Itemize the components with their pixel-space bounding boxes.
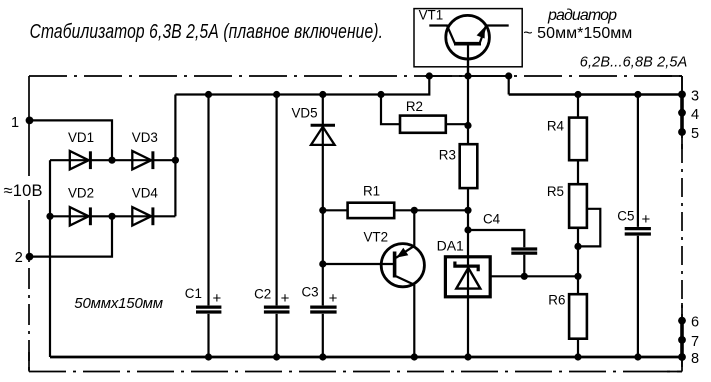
node: R5 wiper rejoin <box>574 243 581 250</box>
node: DA1 row / divider <box>574 273 581 280</box>
svg-text:R3: R3 <box>439 148 456 163</box>
wire: VT2 emitter lead down <box>413 285 415 357</box>
svg-text:1: 1 <box>11 115 19 131</box>
terminal 7 <box>678 336 686 344</box>
node: bridge VD2/VD4 junction <box>108 213 115 220</box>
frame left lower <box>28 200 30 262</box>
svg-text:C5: C5 <box>617 209 634 224</box>
resistor R6 <box>569 294 587 339</box>
diode VD4 <box>132 207 153 225</box>
node: R1 right / VT2 collector <box>411 207 418 214</box>
wire: rail corner down to diode bridge column <box>174 95 176 217</box>
svg-text:C3: C3 <box>302 285 319 300</box>
node: R2 right / base column <box>464 122 471 129</box>
svg-text:50ммх150мм: 50ммх150мм <box>74 295 163 312</box>
diode VD3 <box>132 151 153 169</box>
node: R3 bottom / R1 row <box>464 207 471 214</box>
node: bottom rail / C2 <box>273 353 280 360</box>
terminal 2 <box>26 253 34 261</box>
node: C4 top branch <box>464 226 471 233</box>
wire: solid segment of boundary under VT1 leads <box>425 75 512 77</box>
node: VT1 base on boundary <box>464 72 471 79</box>
wire: VT2 collector lead up <box>413 210 415 246</box>
transistor VT2 <box>381 244 424 287</box>
wire: terminals 3-4-5 bus <box>680 94 684 132</box>
wire: VT1 base / R3 / DA1 column <box>467 46 469 357</box>
IC DA1 (reference / zener) <box>445 257 490 297</box>
svg-text:C1: C1 <box>185 286 202 301</box>
svg-text:7: 7 <box>691 334 699 350</box>
svg-text:+: + <box>329 290 338 307</box>
node: rail / C2 <box>273 91 280 98</box>
wire: output rail y=94.5 <box>509 93 682 96</box>
svg-text:VT1: VT1 <box>419 7 444 22</box>
resistor R1 <box>348 203 395 218</box>
node: bridge minus left <box>46 213 53 220</box>
node: rail / C1 <box>205 91 212 98</box>
wire: C5 column <box>637 95 639 358</box>
wire: terminals 6-7-8 bus <box>680 321 684 357</box>
svg-text:радиатор: радиатор <box>547 7 617 24</box>
svg-text:Стабилизатор 6,3В 2,5А (плавн: Стабилизатор 6,3В 2,5А (плавное включени… <box>30 20 383 42</box>
svg-text:≈10В: ≈10В <box>4 182 43 200</box>
wire: C2 column <box>276 95 278 358</box>
svg-text:6: 6 <box>691 314 699 330</box>
svg-text:5: 5 <box>691 126 699 142</box>
svg-text:+: + <box>642 211 651 228</box>
resistor R3 <box>460 144 478 188</box>
capacitor C4 <box>511 249 537 253</box>
svg-text:C2: C2 <box>254 287 271 302</box>
wire: bridge left column (minus) down to bottom rail <box>49 160 51 357</box>
svg-text:VD5: VD5 <box>292 105 318 120</box>
svg-text:8: 8 <box>691 351 699 367</box>
wire: VD1-VD3 row <box>50 159 175 161</box>
node: bottom rail / C3 <box>319 353 326 360</box>
wire: input rail (unregulated +) y=94.5 <box>175 76 429 95</box>
svg-text:+: + <box>281 290 290 307</box>
svg-text:VD4: VD4 <box>132 186 159 201</box>
wire: terminal 2 lead <box>30 216 113 256</box>
terminal 3 <box>678 91 686 99</box>
svg-text:+: + <box>213 290 222 307</box>
wire: terminal 1 lead <box>30 120 113 160</box>
resistor R2 <box>400 116 446 133</box>
node: rail / R2 <box>377 91 384 98</box>
node: bottom rail / R6 <box>574 353 581 360</box>
capacitor C1 <box>196 307 221 314</box>
frame right (dash-dot) <box>681 76 683 372</box>
wire: VD5/C3 column <box>322 95 324 358</box>
wire: R2 right to VT1 base column <box>446 123 468 125</box>
svg-text:~ 50мм*150мм: ~ 50мм*150мм <box>523 25 632 42</box>
svg-text:VD2: VD2 <box>68 186 94 201</box>
node: bridge VD3 cathode column <box>172 157 179 164</box>
diode VD1 <box>70 151 91 169</box>
svg-text:DA1: DA1 <box>437 237 464 253</box>
node: VT1 collector on boundary <box>426 72 433 79</box>
node: bridge VD1/VD3 junction <box>108 157 115 164</box>
node: C4 bottom / DA1 row <box>521 273 528 280</box>
wire: C1 column <box>207 95 209 358</box>
node: output rail / C5 <box>634 91 641 98</box>
wire: VD2-VD4 row <box>50 215 175 217</box>
node: bottom rail / C5 <box>634 353 641 360</box>
frame top (dash-dot boundary) <box>29 75 682 77</box>
node: VT1 emitter on boundary <box>505 72 512 79</box>
wire: C4 branch <box>468 230 524 276</box>
frame left upper <box>28 76 30 176</box>
capacitor C3 <box>310 307 336 314</box>
node: VT2 base on VD5 column <box>319 260 326 267</box>
svg-text:6,2В...6,8В 2,5А: 6,2В...6,8В 2,5А <box>580 54 688 70</box>
svg-text:VD3: VD3 <box>132 130 158 145</box>
svg-text:4: 4 <box>691 107 699 123</box>
terminal 4 <box>678 109 686 117</box>
frame right solid corner segments <box>660 76 682 372</box>
node: output rail / R4 <box>574 91 581 98</box>
terminal 5 <box>678 128 686 136</box>
terminal 6 <box>678 317 686 325</box>
wire: VT2 base lead <box>323 263 393 265</box>
svg-text:R6: R6 <box>548 293 565 308</box>
diode VD2 <box>70 207 91 225</box>
terminal 1 <box>26 117 34 125</box>
svg-text:R1: R1 <box>363 184 380 199</box>
svg-text:C4: C4 <box>483 212 501 227</box>
svg-text:VT2: VT2 <box>364 229 389 244</box>
svg-text:3: 3 <box>691 88 699 104</box>
capacitor C2 <box>264 307 290 314</box>
svg-text:R4: R4 <box>547 118 565 133</box>
svg-text:VD1: VD1 <box>68 130 94 145</box>
transistor VT1 (on heatsink) <box>414 9 522 76</box>
wire: R4-R5-R6 divider column <box>577 95 579 358</box>
wire: R2 left feed <box>381 95 400 125</box>
resistor R4 <box>569 118 587 161</box>
zener diode VD5 <box>311 125 335 145</box>
resistor R5 (trimmer) <box>569 184 587 228</box>
node: R1 left on VD5 column <box>319 207 326 214</box>
node: bottom rail / C1 <box>205 353 212 360</box>
capacitor C5 <box>625 229 651 235</box>
terminal 8 <box>678 353 686 361</box>
node: rail / VD5 <box>319 91 326 98</box>
node: bottom rail / DA1 <box>464 353 471 360</box>
svg-text:R2: R2 <box>406 99 423 114</box>
wire: bottom rail (minus) <box>50 356 682 359</box>
svg-text:R5: R5 <box>547 184 564 199</box>
wire: R1 row <box>323 209 468 211</box>
node: bottom rail / VT2 emitter <box>411 353 418 360</box>
frame bottom (dash-dot) <box>29 371 682 373</box>
wire: R5 wiper tap <box>578 209 600 247</box>
wire: DA1 reference row to divider <box>490 275 578 277</box>
svg-text:2: 2 <box>15 250 23 266</box>
